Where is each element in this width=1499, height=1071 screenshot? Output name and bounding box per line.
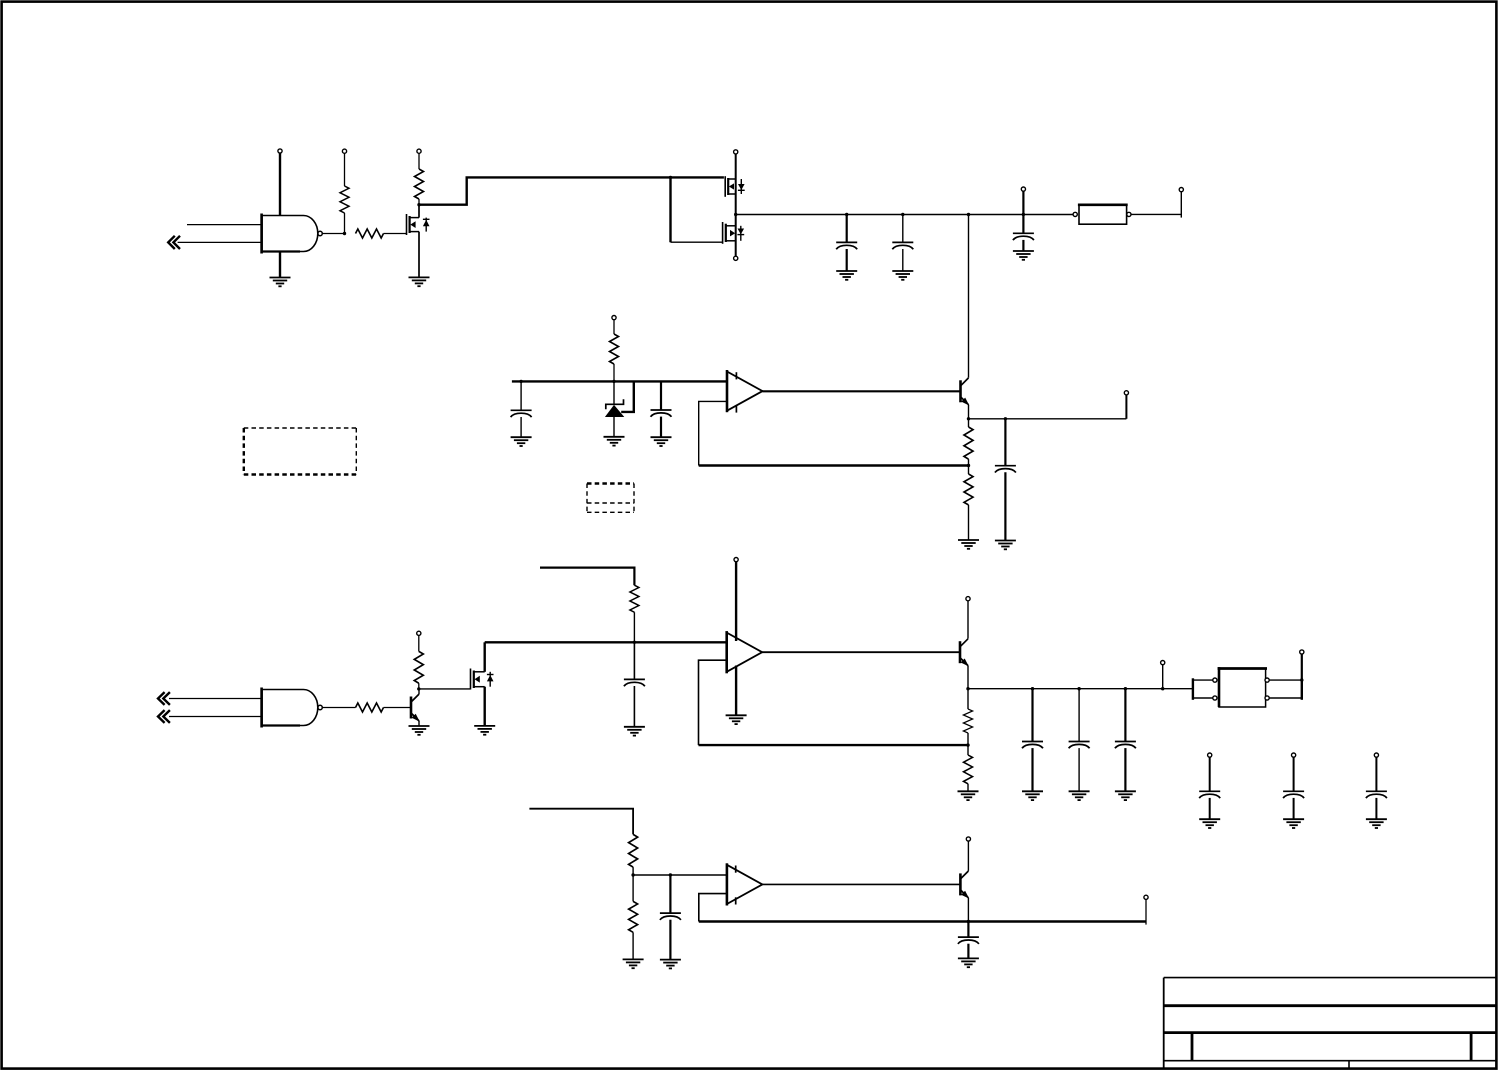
node C2 tap: [901, 213, 904, 216]
resistor R1 pull-up: [340, 149, 349, 233]
node port tap: [1161, 687, 1164, 690]
wire U2 output to Q4 base: [763, 390, 961, 392]
node gate drive junction: [669, 176, 672, 179]
U1 power pin: [278, 149, 282, 216]
node feedback tap lower: [966, 743, 969, 746]
U1 ground pin: [279, 252, 281, 278]
wire FB1 to port: [1131, 192, 1181, 215]
node C3 tap: [1022, 213, 1025, 216]
wire gate drive to M2/M3: [419, 177, 724, 242]
capacitor C13 with port: [1366, 753, 1387, 819]
ferrite bead FB1: [1073, 205, 1131, 224]
resistor R6: [964, 466, 973, 541]
capacitor C14: [660, 875, 681, 960]
ground: [623, 959, 644, 968]
ground: [1022, 791, 1043, 800]
ground: [1199, 819, 1220, 828]
capacitor C2: [892, 215, 913, 272]
node C14 tap: [669, 873, 672, 876]
wire input B of U1: [178, 241, 261, 243]
transistor M2 p-mosfet high side: [725, 150, 745, 256]
capacitor C8: [1022, 689, 1043, 792]
capacitor C12 with port: [1283, 753, 1304, 819]
op-amp U2: [727, 370, 763, 413]
NAND gate U1: [262, 214, 323, 254]
capacitor C6: [995, 419, 1016, 541]
Q6 collector port: [966, 597, 970, 639]
ground: [892, 271, 913, 280]
wire feedback bottom: [699, 920, 969, 922]
ground: [511, 437, 532, 446]
node collector tap: [967, 213, 970, 216]
transistor M3 n-mosfet low side: [723, 222, 745, 260]
wire down to Q2 collector: [968, 215, 970, 378]
ground: [726, 715, 747, 724]
wire U1 output: [322, 233, 345, 235]
wire input A of U3: [169, 698, 261, 700]
resistor R3 drain pull-up: [415, 149, 424, 205]
wire upper net bottom: [529, 809, 633, 835]
wire U5 inverting input: [699, 894, 727, 922]
capacitor C11 with port: [1199, 753, 1220, 819]
node C9 tap: [1077, 687, 1080, 690]
ground: [624, 727, 645, 736]
resistor R11: [964, 745, 973, 791]
capacitor C4: [511, 381, 532, 437]
ground: [409, 277, 430, 286]
transistor Q4 npn: [961, 378, 970, 406]
capacitor C9: [1069, 689, 1090, 792]
transistor M4 n-mosfet: [471, 642, 494, 726]
ground: [409, 726, 430, 735]
transistor Q5 npn: [411, 694, 420, 722]
resistor R10: [964, 689, 973, 745]
dashed annotation box small: [587, 484, 634, 513]
wire feedback: [699, 464, 969, 466]
port top-right: [1179, 188, 1183, 192]
port stub on rail: [1161, 661, 1165, 689]
port middle right: [1124, 391, 1128, 395]
ground: [958, 540, 979, 549]
SECTION-TITLE: [1164, 978, 1496, 1069]
wire port stub bottom: [1145, 899, 1147, 924]
node M2/M3 midpoint: [734, 213, 737, 216]
wire input B of U3: [169, 716, 261, 718]
wire stub at D1: [621, 381, 634, 412]
ground: [1013, 251, 1034, 260]
node Q6 emitter: [966, 687, 969, 690]
capacitor C7: [624, 642, 645, 727]
capacitor C3 with supply port: [1013, 187, 1034, 251]
ground: [958, 791, 979, 800]
op-amp U5: [727, 863, 763, 905]
SECTION-LOWER: [158, 558, 1387, 829]
wire U5 output to Q7 base: [762, 883, 960, 885]
node M1 drain: [417, 203, 420, 206]
node R9 tap: [633, 641, 636, 644]
resistor R13: [629, 875, 638, 959]
transformer T1: [1193, 667, 1304, 707]
resistor R8 from supply: [414, 631, 423, 689]
node U1 out / R1: [343, 232, 346, 235]
wire input A of U1: [187, 224, 261, 226]
wire upper net: [540, 568, 634, 586]
zener diode D1: [605, 381, 624, 436]
ground: [660, 960, 681, 969]
dashed annotation box large: [244, 428, 356, 475]
ground: [474, 726, 495, 735]
ground: [958, 958, 979, 967]
input chevron: [158, 710, 170, 723]
wire emitter rail lower: [968, 688, 1193, 690]
port bottom right: [1144, 895, 1148, 899]
wire Q5 emitter to ground: [418, 721, 420, 726]
node R8 / Q5 collector: [417, 687, 420, 690]
node feedback tap: [967, 464, 970, 467]
node C8 tap: [1031, 687, 1034, 690]
resistor R2 series: [356, 229, 407, 238]
capacitor C15: [958, 922, 979, 959]
node Q4 emitter: [967, 417, 970, 420]
port T1 output: [1300, 650, 1304, 680]
title block: [1164, 978, 1496, 1069]
input chevron: [158, 692, 170, 705]
transistor Q1 n-mosfet: [407, 205, 430, 278]
wire U4 inverting input: [699, 660, 727, 745]
wire gate drive to M4: [419, 688, 471, 690]
op-amp U4: [727, 631, 763, 673]
node C10 tap: [1124, 687, 1127, 690]
node C1 tap: [845, 213, 848, 216]
U4 ground pin: [735, 666, 737, 716]
wire emitter to port bottom: [968, 920, 1146, 922]
capacitor C5: [651, 381, 672, 437]
U4 power pin: [734, 558, 738, 642]
Q7 collector port: [966, 837, 970, 871]
wire feedback lower: [699, 744, 969, 746]
node R12 tap: [631, 873, 634, 876]
input chevron: [168, 236, 180, 249]
resistor R5: [964, 419, 973, 466]
capacitor C1: [836, 215, 857, 272]
transistor Q6 npn: [960, 639, 969, 667]
wire main rail middle: [512, 380, 727, 382]
ground: [995, 541, 1016, 550]
node Q7 emitter: [967, 920, 970, 923]
resistor R9: [630, 585, 639, 642]
wire main rail lower: [485, 641, 727, 643]
wire Q6 emitter: [967, 666, 969, 689]
wire U2 inverting input: [699, 401, 727, 465]
resistor R12: [629, 834, 638, 875]
wire Q4 emitter: [968, 405, 970, 419]
ground: [1283, 819, 1304, 828]
wire VOUT rail top: [736, 214, 1073, 216]
wire Q7 emitter: [967, 898, 969, 922]
transistor Q7 npn: [960, 871, 969, 899]
wire to U5 input: [633, 874, 727, 876]
wire U3 output: [322, 707, 355, 709]
ground: [651, 437, 672, 446]
resistor R4 from supply: [610, 316, 619, 382]
node R4 tap: [612, 380, 615, 383]
ground: [836, 271, 857, 280]
ground: [604, 437, 625, 446]
capacitor C10: [1115, 689, 1136, 792]
ground: [270, 278, 291, 287]
resistor R7 series: [356, 703, 412, 712]
SECTION-BOTTOM: [529, 809, 1148, 969]
node C4 tap: [519, 380, 522, 383]
wire port stub: [1125, 395, 1127, 419]
SECTION-MIDDLE: [244, 316, 1129, 550]
ground: [1366, 819, 1387, 828]
wire U4 output to Q6 base: [761, 651, 960, 653]
wire Q5 collector: [418, 689, 420, 694]
ground: [1115, 791, 1136, 800]
NAND gate U3: [262, 688, 323, 728]
ground: [1069, 791, 1090, 800]
wire emitter to port: [969, 418, 1127, 420]
node C6 tap: [1004, 417, 1007, 420]
SECTION-TOP: [168, 149, 1183, 378]
